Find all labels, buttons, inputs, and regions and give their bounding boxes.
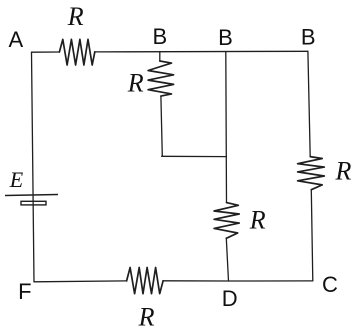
svg-text:E: E [9, 167, 24, 192]
battery E long plate [5, 195, 58, 196]
wire top R1 to B corner [95, 50, 308, 53]
svg-text:R: R [249, 206, 266, 235]
svg-text:C: C [322, 272, 338, 297]
svg-text:B: B [218, 25, 233, 50]
wire B stub to R2 [159, 52, 161, 62]
wire bottom F to R5 [34, 280, 127, 283]
svg-text:B: B [152, 24, 167, 49]
svg-text:A: A [9, 27, 24, 52]
svg-text:B: B [301, 25, 316, 50]
wire top A to R1 [32, 51, 60, 53]
resistor R5 [127, 268, 164, 294]
battery E short plate [21, 201, 46, 205]
wire B to R3 [225, 52, 228, 203]
svg-text:R: R [67, 2, 84, 31]
svg-text:D: D [222, 286, 238, 311]
wire R3 to D [226, 238, 228, 281]
svg-text:R: R [334, 157, 351, 186]
resistor R4 [298, 157, 325, 190]
wire right B to R4 [308, 51, 310, 156]
resistor R3 [214, 203, 239, 239]
wire bottom R5 to C [163, 280, 313, 282]
wire join to B branch [162, 155, 227, 157]
wire R2 to node join [161, 96, 162, 156]
svg-text:R: R [127, 69, 144, 98]
resistor R2 [148, 61, 174, 96]
wire right R4 to C [311, 190, 313, 281]
resistor R1 [59, 39, 94, 65]
wire left A to F [32, 52, 35, 282]
svg-text:F: F [18, 279, 31, 304]
svg-text:R: R [138, 303, 155, 329]
